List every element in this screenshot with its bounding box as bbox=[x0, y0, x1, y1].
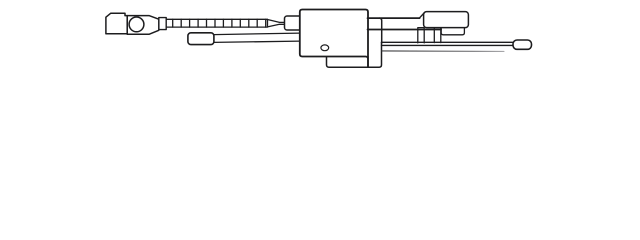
key head housing P1 bbox=[106, 13, 127, 34]
pill connector P2 bbox=[188, 33, 214, 45]
connector tab B bbox=[434, 28, 441, 42]
top cable wire 1 bbox=[368, 17, 420, 19]
capsule connector J2 bbox=[513, 40, 532, 49]
ferrule sleeve F2 bbox=[159, 18, 166, 30]
bracket drop from top wire bbox=[379, 18, 382, 43]
connector tab C bbox=[441, 28, 464, 35]
conduit end taper / neck bbox=[268, 20, 287, 27]
connector tab A bbox=[418, 28, 424, 43]
top connector J1 bbox=[424, 12, 469, 28]
top cable wire 2 bbox=[368, 29, 442, 31]
rod from pill to module bbox=[214, 33, 300, 42]
ferrule into module bbox=[285, 16, 303, 30]
barrel housing with taper bbox=[127, 16, 159, 35]
thin antenna wire bbox=[382, 50, 504, 53]
module screw hole bbox=[321, 45, 329, 51]
wire ramp into connector bbox=[419, 12, 424, 18]
module foot bbox=[327, 42, 382, 67]
body right edge extension bbox=[367, 57, 369, 67]
corrugated conduit C1 bbox=[166, 19, 268, 27]
module body U1 bbox=[300, 10, 368, 67]
barrel circle bbox=[129, 17, 144, 32]
cable pair to capsule bbox=[382, 42, 514, 45]
